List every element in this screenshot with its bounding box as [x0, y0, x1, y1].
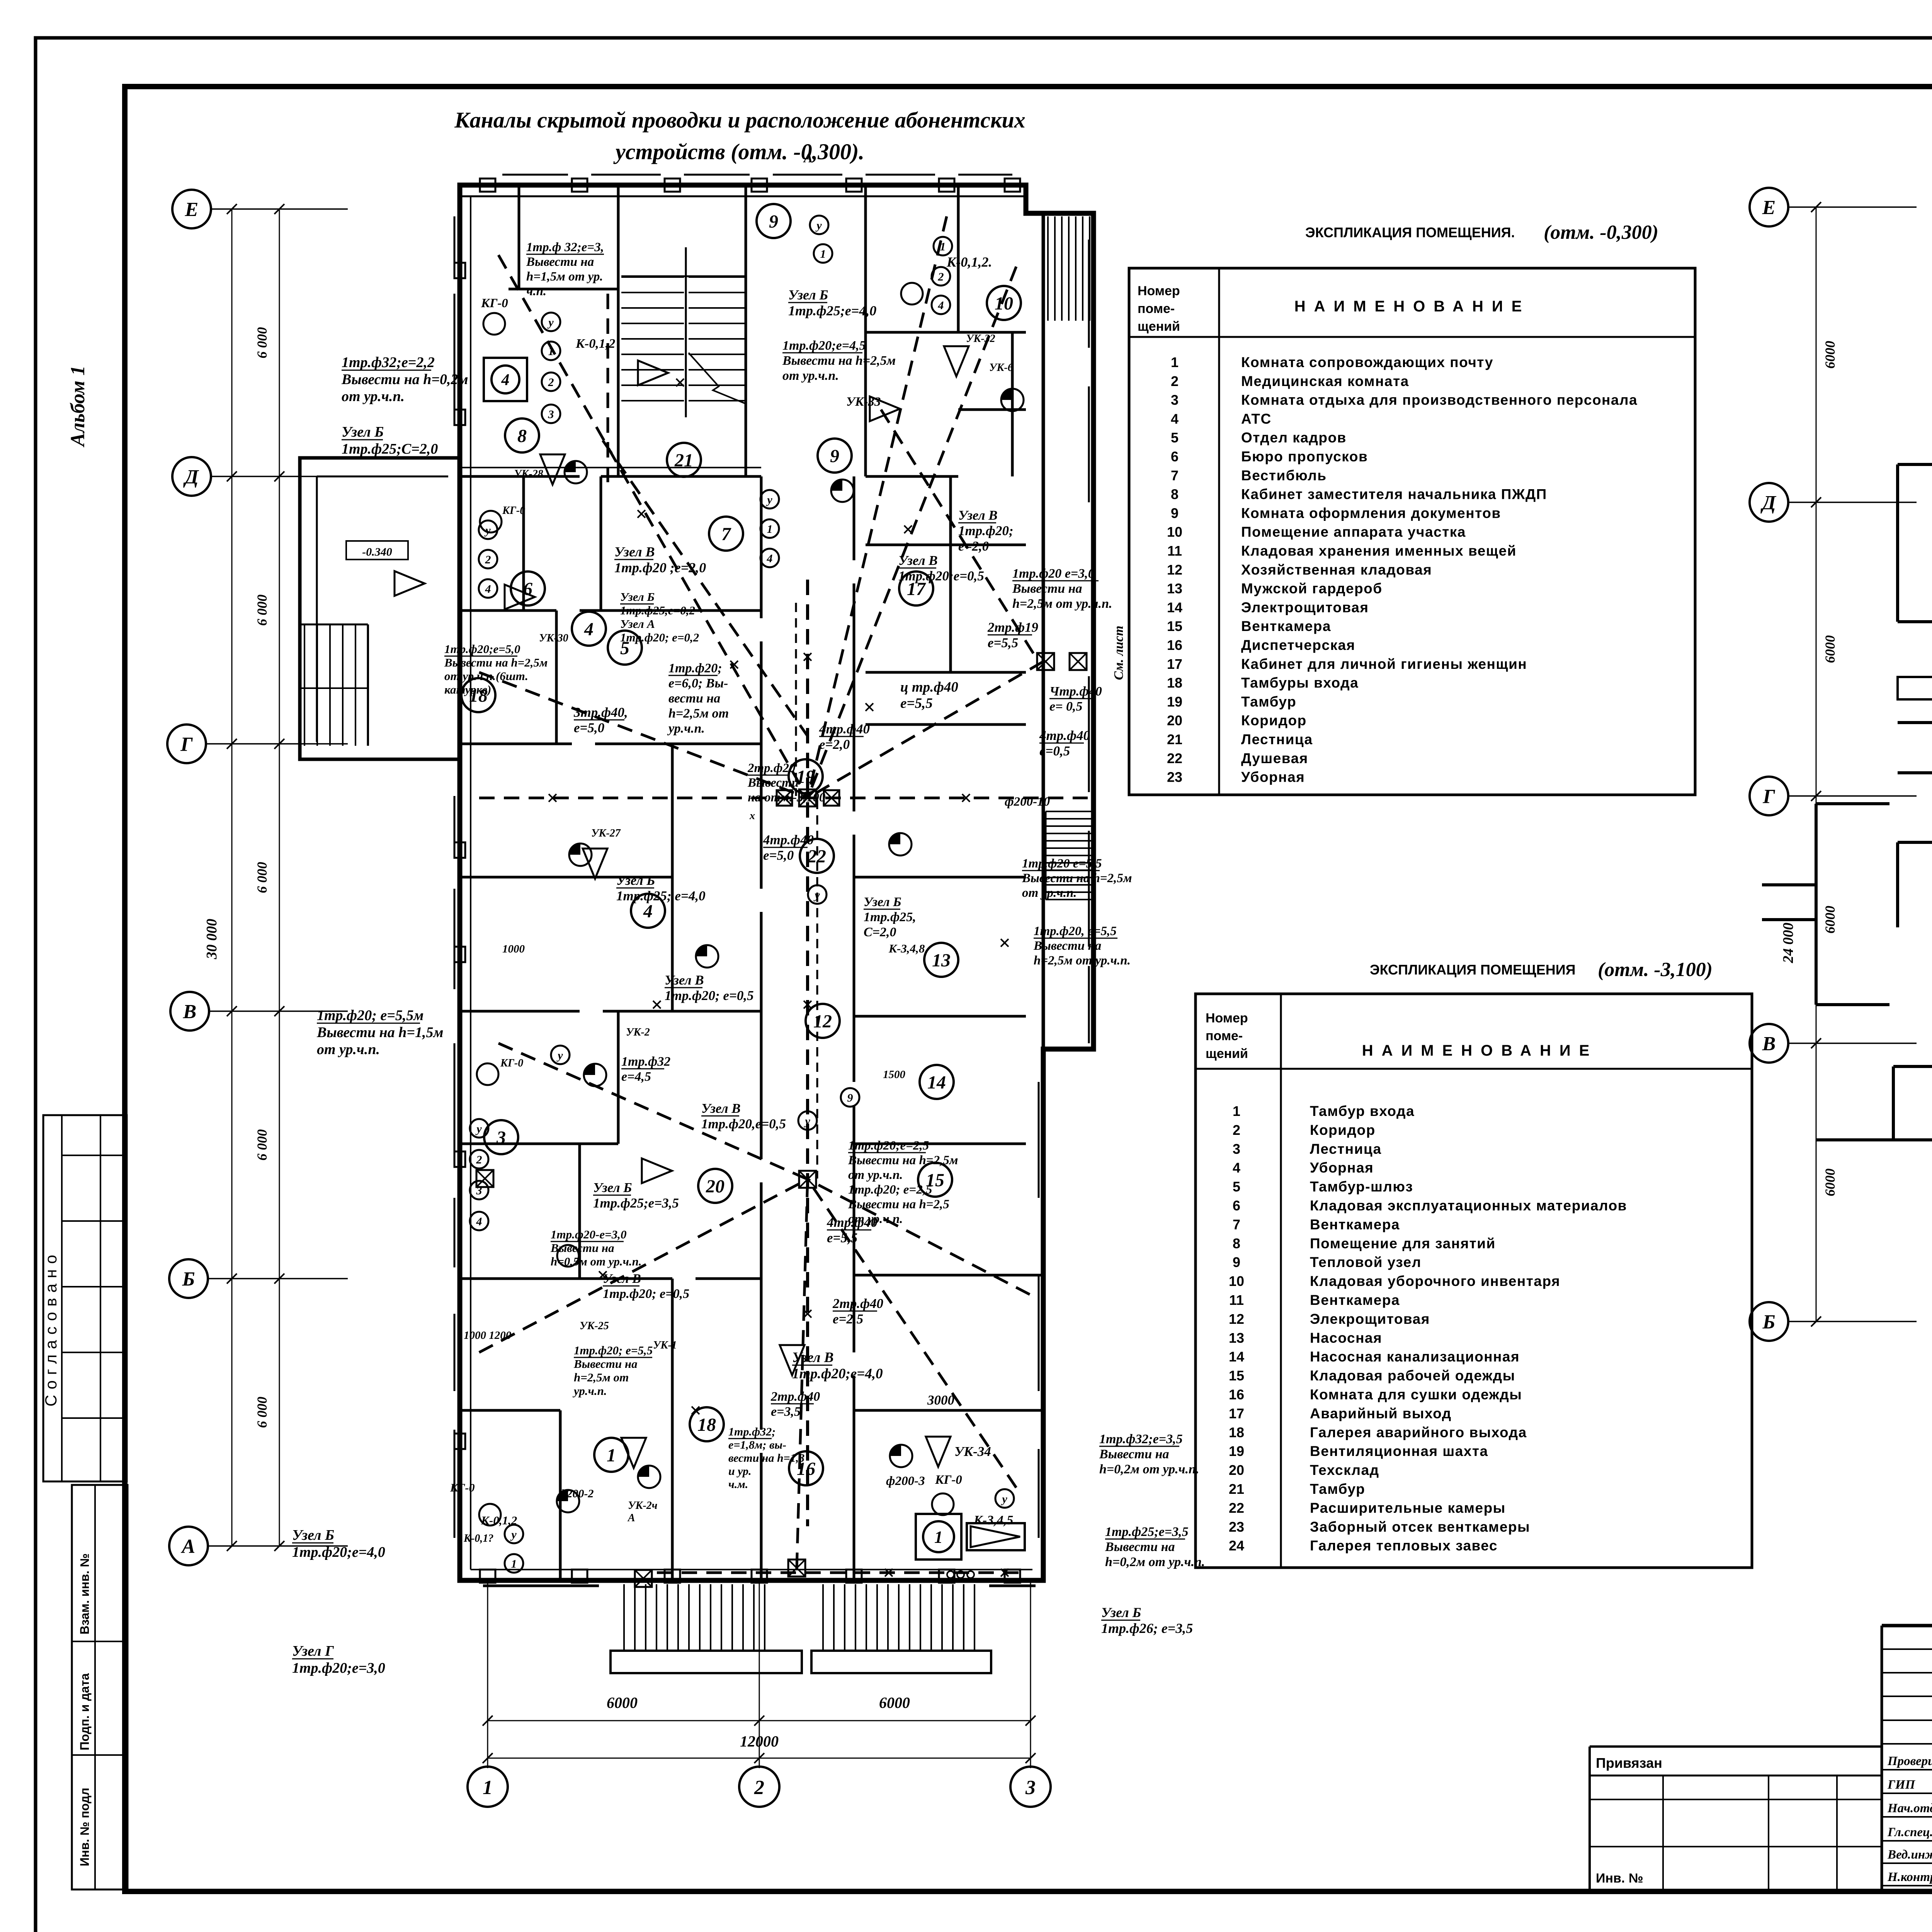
svg-text:К-0,1,2: К-0,1,2 — [575, 337, 615, 351]
svg-text:УК-6: УК-6 — [989, 362, 1013, 374]
svg-text:1тр.ф 32;e=3,: 1тр.ф 32;e=3, — [526, 240, 604, 254]
svg-text:Узел В: Узел В — [898, 553, 938, 568]
svg-text:К-3,4,8: К-3,4,8 — [888, 942, 925, 955]
svg-text:24 000: 24 000 — [1780, 923, 1796, 964]
svg-text:e=5,0: e=5,0 — [763, 848, 794, 863]
svg-text:Тамбур: Тамбур — [1241, 694, 1296, 709]
svg-text:Альбом 1: Альбом 1 — [67, 366, 89, 447]
svg-text:Расширительные камеры: Расширительные камеры — [1310, 1500, 1506, 1516]
svg-text:УК-27: УК-27 — [591, 827, 621, 839]
svg-text:9: 9 — [830, 446, 839, 466]
svg-text:Узел А: Узел А — [620, 617, 655, 631]
svg-text:14: 14 — [1167, 599, 1182, 615]
svg-text:9: 9 — [769, 211, 778, 232]
svg-text:Вывести на: Вывести на — [573, 1357, 638, 1371]
svg-text:Е: Е — [1762, 197, 1776, 219]
svg-text:Г: Г — [180, 733, 193, 755]
svg-text:C=2,0: C=2,0 — [864, 925, 896, 939]
svg-text:Б: Б — [182, 1268, 195, 1290]
svg-text:e=6,0; Вы-: e=6,0; Вы- — [668, 676, 728, 690]
svg-text:ф200-3: ф200-3 — [886, 1474, 925, 1488]
svg-text:1тр.ф20-e=3,0: 1тр.ф20-e=3,0 — [551, 1228, 627, 1241]
svg-text:Узел Б: Узел Б — [593, 1180, 632, 1195]
svg-text:Узел В: Узел В — [614, 544, 655, 560]
svg-text:23: 23 — [1167, 769, 1182, 785]
svg-text:1тр.ф20; e=5,5: 1тр.ф20; e=5,5 — [574, 1344, 653, 1357]
svg-text:от ур.ч.п.: от ур.ч.п. — [848, 1168, 903, 1182]
svg-text:1: 1 — [607, 1445, 616, 1466]
svg-text:h=2,5м от ур.ч.п.: h=2,5м от ур.ч.п. — [1012, 597, 1112, 611]
svg-text:6000: 6000 — [1822, 906, 1838, 934]
svg-text:22: 22 — [807, 846, 826, 867]
svg-text:вести на h=1,3: вести на h=1,3 — [728, 1452, 804, 1464]
svg-text:6 000: 6 000 — [254, 1129, 270, 1161]
svg-text:от ур.ч.п.: от ур.ч.п. — [342, 388, 405, 405]
svg-text:ЭКСПЛИКАЦИЯ ПОМЕЩЕНИЯ.: ЭКСПЛИКАЦИЯ ПОМЕЩЕНИЯ. — [1305, 224, 1515, 240]
svg-text:Взам. инв. №: Взам. инв. № — [78, 1553, 92, 1634]
svg-text:16: 16 — [1229, 1387, 1244, 1403]
svg-text:4: 4 — [1171, 411, 1179, 427]
svg-text:4тр.ф40: 4тр.ф40 — [763, 832, 814, 847]
svg-text:у: у — [475, 1122, 482, 1135]
svg-text:20: 20 — [1167, 713, 1182, 728]
svg-text:Узел В: Узел В — [958, 508, 998, 523]
svg-text:h=0,5м от ур.ч.п.: h=0,5м от ур.ч.п. — [551, 1255, 642, 1268]
svg-text:Г: Г — [1762, 786, 1775, 808]
svg-text:от ур.ч.п.: от ур.ч.п. — [782, 369, 839, 383]
svg-text:2: 2 — [754, 1777, 764, 1799]
svg-text:Проверил: Проверил — [1887, 1754, 1932, 1768]
svg-text:e=0,5: e=0,5 — [1039, 743, 1070, 759]
svg-text:ф200-10: ф200-10 — [1005, 795, 1050, 809]
svg-text:1тр.ф25;e=3,5: 1тр.ф25;e=3,5 — [1105, 1525, 1189, 1539]
svg-text:4тр.ф40: 4тр.ф40 — [1039, 728, 1090, 743]
svg-text:вести на: вести на — [668, 691, 720, 706]
svg-text:Тамбур: Тамбур — [1310, 1481, 1365, 1497]
svg-text:Уборная: Уборная — [1241, 769, 1305, 785]
svg-text:Кладовая хранения именных веще: Кладовая хранения именных вещей — [1241, 543, 1517, 559]
svg-text:20: 20 — [1229, 1462, 1244, 1478]
svg-text:Комната сопровождающих почту: Комната сопровождающих почту — [1241, 354, 1493, 370]
svg-text:15: 15 — [1229, 1368, 1244, 1384]
svg-text:К-3,4,5: К-3,4,5 — [973, 1513, 1013, 1527]
svg-text:7: 7 — [1233, 1216, 1240, 1232]
svg-text:Вывести на h=2,5м: Вывести на h=2,5м — [444, 656, 548, 669]
svg-text:УК-2ч: УК-2ч — [628, 1500, 658, 1512]
svg-text:Вывести на: Вывести на — [550, 1241, 614, 1255]
svg-text:8: 8 — [517, 426, 527, 446]
svg-text:1: 1 — [511, 1558, 517, 1570]
svg-text:17: 17 — [1229, 1405, 1244, 1421]
svg-text:5: 5 — [1171, 430, 1179, 446]
svg-text:3: 3 — [1233, 1141, 1240, 1157]
svg-text:Заборный отсек венткамеры: Заборный отсек венткамеры — [1310, 1519, 1530, 1535]
svg-text:19: 19 — [796, 767, 815, 787]
svg-text:ц тр.ф40: ц тр.ф40 — [900, 679, 958, 695]
svg-text:КГ-0: КГ-0 — [502, 505, 525, 517]
svg-text:Инв. №: Инв. № — [1596, 1871, 1643, 1886]
svg-text:e=5,5: e=5,5 — [988, 635, 1018, 650]
svg-text:1тр.ф20,e=0,5: 1тр.ф20,e=0,5 — [701, 1116, 786, 1131]
svg-text:1тр.ф20 e=3,0: 1тр.ф20 e=3,0 — [1012, 566, 1095, 581]
svg-text:от ур.ч.п.(6шт.: от ур.ч.п.(6шт. — [444, 669, 528, 683]
svg-text:9: 9 — [1233, 1254, 1240, 1270]
svg-text:(отм. -0,300): (отм. -0,300) — [1544, 221, 1658, 243]
svg-text:14: 14 — [1229, 1349, 1244, 1365]
svg-text:См. лист: См. лист — [1112, 626, 1126, 680]
svg-text:Вывести на h=2,5м: Вывести на h=2,5м — [1022, 871, 1132, 885]
svg-text:1тр.ф25;e=4,0: 1тр.ф25;e=4,0 — [788, 303, 876, 318]
svg-text:1тр.ф25,: 1тр.ф25, — [864, 910, 916, 924]
svg-text:13: 13 — [1167, 581, 1182, 597]
svg-text:К-0,1?: К-0,1? — [463, 1532, 493, 1544]
svg-text:Узел Б: Узел Б — [342, 424, 384, 440]
svg-text:катурке): катурке) — [444, 683, 492, 696]
svg-text:Венткамера: Венткамера — [1241, 618, 1331, 634]
svg-text:К-0,1,2.: К-0,1,2. — [946, 254, 992, 270]
svg-text:Вывести: Вывести — [747, 776, 799, 790]
svg-text:Насосная: Насосная — [1310, 1330, 1382, 1346]
svg-text:Б: Б — [1762, 1311, 1775, 1333]
svg-text:у: у — [766, 493, 772, 506]
svg-text:Узел Б: Узел Б — [620, 590, 655, 604]
svg-text:1тр.ф20; e=0,5: 1тр.ф20; e=0,5 — [665, 988, 754, 1003]
svg-text:Вывести на h=2,5м: Вывести на h=2,5м — [848, 1153, 958, 1167]
svg-text:поме-: поме- — [1206, 1029, 1243, 1043]
svg-text:1тр.ф20;e=4,5: 1тр.ф20;e=4,5 — [782, 338, 866, 353]
svg-text:6: 6 — [1233, 1198, 1240, 1214]
svg-text:1тр.ф20;e=4,0: 1тр.ф20;e=4,0 — [792, 1366, 883, 1382]
svg-text:Вывести на h=0,2м: Вывести на h=0,2м — [341, 371, 468, 388]
svg-text:Номер: Номер — [1138, 284, 1180, 298]
svg-text:Вывести на: Вывести на — [1105, 1540, 1175, 1554]
svg-text:2тр.ф19: 2тр.ф19 — [987, 620, 1038, 635]
svg-text:e=2,5: e=2,5 — [833, 1311, 863, 1327]
svg-text:2: 2 — [548, 376, 554, 389]
svg-text:на отм.-3,100: на отм.-3,100 — [748, 791, 825, 804]
svg-text:Коридор: Коридор — [1310, 1122, 1376, 1138]
svg-text:Узел Б: Узел Б — [1101, 1605, 1141, 1620]
svg-text:Вед.инжен: Вед.инжен — [1887, 1848, 1932, 1862]
svg-text:1тр.ф20;e=5,0: 1тр.ф20;e=5,0 — [444, 642, 520, 656]
svg-text:e=4,5: e=4,5 — [621, 1070, 651, 1084]
svg-text:Нач.отд.: Нач.отд. — [1887, 1801, 1932, 1815]
svg-text:e=2,0: e=2,0 — [819, 737, 850, 752]
svg-text:1тр.ф20;e=4,0: 1тр.ф20;e=4,0 — [292, 1544, 385, 1560]
svg-text:e= 0,5: e= 0,5 — [1049, 699, 1082, 714]
svg-text:h=0,2м от ур.ч.п.: h=0,2м от ур.ч.п. — [1099, 1462, 1199, 1476]
svg-text:Хозяйственная кладовая: Хозяйственная кладовая — [1241, 562, 1432, 578]
svg-text:6000: 6000 — [879, 1694, 910, 1711]
svg-text:2: 2 — [1233, 1122, 1240, 1138]
svg-text:Тепловой узел: Тепловой узел — [1310, 1254, 1422, 1270]
svg-text:9: 9 — [847, 1092, 853, 1104]
svg-text:Венткамера: Венткамера — [1310, 1292, 1400, 1308]
svg-text:КГ-0: КГ-0 — [935, 1473, 962, 1487]
svg-text:21: 21 — [674, 450, 693, 471]
svg-text:18: 18 — [1229, 1424, 1244, 1440]
svg-text:6 000: 6 000 — [254, 595, 270, 626]
svg-text:1тр.ф25;C=2,0: 1тр.ф25;C=2,0 — [342, 441, 438, 457]
svg-text:4: 4 — [1233, 1160, 1240, 1176]
svg-text:3тр.ф40,: 3тр.ф40, — [573, 705, 628, 720]
svg-text:Галерея аварийного выхода: Галерея аварийного выхода — [1310, 1424, 1527, 1440]
svg-text:НАИМЕНОВАНИЕ: НАИМЕНОВАНИЕ — [1362, 1042, 1598, 1059]
svg-text:17: 17 — [1167, 656, 1182, 672]
svg-text:6 000: 6 000 — [254, 327, 270, 359]
svg-text:4тр.ф40: 4тр.ф40 — [819, 721, 870, 736]
svg-text:и ур.: и ур. — [728, 1465, 752, 1478]
svg-text:Вентиляционная шахта: Вентиляционная шахта — [1310, 1443, 1488, 1459]
svg-text:22: 22 — [1167, 750, 1182, 766]
svg-text:7: 7 — [1171, 468, 1179, 483]
svg-text:у: у — [815, 219, 822, 232]
svg-text:4: 4 — [584, 619, 594, 639]
svg-text:h=2,5м от ур.ч.п.: h=2,5м от ур.ч.п. — [1034, 954, 1131, 968]
svg-text:Помещение аппарата участка: Помещение аппарата участка — [1241, 524, 1466, 540]
svg-text:1тр.ф20 ;e=2,0: 1тр.ф20 ;e=2,0 — [614, 560, 706, 575]
svg-text:КГ-0: КГ-0 — [481, 296, 508, 310]
svg-text:А: А — [803, 150, 813, 165]
svg-text:Узел В: Узел В — [701, 1101, 741, 1116]
svg-text:ф200-2: ф200-2 — [558, 1487, 594, 1500]
svg-text:К-0,1,2: К-0,1,2 — [481, 1514, 517, 1527]
svg-text:12: 12 — [1229, 1311, 1244, 1327]
svg-text:1500: 1500 — [883, 1068, 905, 1081]
svg-text:Галерея тепловых завес: Галерея тепловых завес — [1310, 1538, 1498, 1554]
svg-text:12: 12 — [1167, 562, 1182, 578]
svg-text:УК-33: УК-33 — [846, 395, 881, 409]
svg-text:11: 11 — [1167, 543, 1182, 559]
svg-text:Вестибюль: Вестибюль — [1241, 468, 1327, 483]
svg-text:1тр.ф32;e=2,2: 1тр.ф32;e=2,2 — [342, 354, 435, 371]
svg-text:устройств (отм. -0,300).: устройств (отм. -0,300). — [613, 139, 864, 164]
svg-text:2: 2 — [485, 553, 491, 566]
svg-text:1тр.ф20;e=0,5: 1тр.ф20;e=0,5 — [898, 568, 984, 583]
svg-text:6000: 6000 — [1822, 635, 1838, 663]
svg-text:НАИМЕНОВАНИЕ: НАИМЕНОВАНИЕ — [1294, 298, 1531, 315]
svg-text:18: 18 — [1167, 675, 1182, 691]
svg-text:4тр.ф40: 4тр.ф40 — [827, 1215, 878, 1230]
svg-text:4: 4 — [501, 371, 510, 389]
svg-text:Узел Б: Узел Б — [292, 1527, 334, 1543]
svg-text:1тр.ф20;e=2,5: 1тр.ф20;e=2,5 — [848, 1139, 929, 1153]
svg-text:10: 10 — [1167, 524, 1182, 540]
svg-text:Венткамера: Венткамера — [1310, 1216, 1400, 1232]
svg-text:3: 3 — [1171, 392, 1179, 408]
svg-text:Инв. № подл: Инв. № подл — [78, 1788, 92, 1866]
svg-text:3: 3 — [476, 1184, 482, 1197]
svg-text:Каналы скрытой проводки и расп: Каналы скрытой проводки и расположение а… — [454, 107, 1025, 133]
svg-text:1тр.ф25; e=4,0: 1тр.ф25; e=4,0 — [616, 888, 706, 903]
svg-text:6000: 6000 — [1822, 1168, 1838, 1196]
svg-text:Комната для сушки одежды: Комната для сушки одежды — [1310, 1387, 1522, 1403]
svg-text:24: 24 — [1229, 1538, 1244, 1554]
svg-text:от ур.ч.п.: от ур.ч.п. — [317, 1041, 380, 1058]
svg-text:Уборная: Уборная — [1310, 1160, 1374, 1176]
svg-text:Узел В: Узел В — [603, 1272, 641, 1286]
svg-text:Мужской гардероб: Мужской гардероб — [1241, 581, 1383, 597]
svg-text:поме-: поме- — [1138, 301, 1175, 316]
svg-text:Н.контр.: Н.контр. — [1887, 1870, 1932, 1884]
svg-text:Кладовая рабочей одежды: Кладовая рабочей одежды — [1310, 1368, 1515, 1384]
svg-text:УК-1: УК-1 — [653, 1339, 677, 1351]
svg-text:1: 1 — [1171, 354, 1179, 370]
svg-text:6: 6 — [1171, 449, 1179, 464]
svg-text:В: В — [1762, 1033, 1776, 1055]
svg-text:1тр.ф25,e=0,2: 1тр.ф25,e=0,2 — [620, 604, 695, 617]
svg-text:4: 4 — [643, 901, 653, 922]
svg-text:ЭКСПЛИКАЦИЯ ПОМЕЩЕНИЯ: ЭКСПЛИКАЦИЯ ПОМЕЩЕНИЯ — [1370, 962, 1575, 978]
svg-text:Душевая: Душевая — [1241, 750, 1308, 766]
svg-text:1тр.ф20, e=5,5: 1тр.ф20, e=5,5 — [1034, 924, 1117, 938]
svg-text:8: 8 — [1233, 1235, 1240, 1251]
svg-text:13: 13 — [1229, 1330, 1244, 1346]
svg-text:КГ-0: КГ-0 — [450, 1481, 474, 1494]
svg-text:Диспетчерская: Диспетчерская — [1241, 637, 1355, 653]
svg-text:2тр.ф20: 2тр.ф20 — [747, 761, 796, 775]
svg-text:12: 12 — [813, 1011, 832, 1032]
svg-text:КГ-0: КГ-0 — [500, 1057, 523, 1069]
svg-text:А: А — [627, 1512, 635, 1524]
svg-text:15: 15 — [1167, 618, 1182, 634]
svg-text:Вывести на: Вывести на — [526, 255, 594, 269]
svg-text:Вывести на h=2,5м: Вывести на h=2,5м — [782, 354, 896, 368]
svg-text:Медицинская комната: Медицинская комната — [1241, 373, 1409, 389]
svg-text:Д: Д — [1760, 492, 1776, 514]
svg-text:Вывести на h=2,5: Вывести на h=2,5 — [848, 1197, 949, 1211]
svg-text:9: 9 — [1171, 505, 1179, 521]
svg-text:6 000: 6 000 — [254, 862, 270, 893]
svg-text:Отдел кадров: Отдел кадров — [1241, 430, 1347, 446]
svg-text:6 000: 6 000 — [254, 1397, 270, 1428]
svg-text:Гл.спец.: Гл.спец. — [1887, 1825, 1932, 1839]
svg-text:у: у — [556, 1049, 563, 1062]
svg-text:1000: 1000 — [502, 943, 525, 955]
svg-text:2: 2 — [938, 270, 944, 283]
svg-text:1: 1 — [940, 240, 946, 253]
svg-text:3: 3 — [496, 1128, 506, 1148]
svg-text:23: 23 — [1229, 1519, 1244, 1535]
svg-text:1тр.ф20;: 1тр.ф20; — [668, 661, 722, 675]
svg-text:1тр.ф20; e=0,5: 1тр.ф20; e=0,5 — [603, 1287, 689, 1301]
svg-text:e=2,0: e=2,0 — [958, 539, 989, 554]
svg-text:Номер: Номер — [1206, 1011, 1248, 1026]
svg-text:Вывести на: Вывести на — [1033, 939, 1101, 953]
svg-text:16: 16 — [1167, 637, 1182, 653]
svg-text:e=3,5: e=3,5 — [771, 1405, 801, 1419]
svg-text:2тр.ф40: 2тр.ф40 — [770, 1389, 820, 1404]
svg-text:Д: Д — [183, 466, 199, 488]
svg-text:Бюро пропусков: Бюро пропусков — [1241, 449, 1368, 464]
svg-text:10: 10 — [1229, 1273, 1244, 1289]
svg-text:Вывести на: Вывести на — [1012, 582, 1082, 596]
svg-text:у: у — [484, 524, 491, 537]
svg-text:6: 6 — [523, 579, 532, 599]
svg-text:h=1,5м от ур.: h=1,5м от ур. — [526, 270, 603, 284]
svg-text:Вывести на h=1,5м: Вывести на h=1,5м — [316, 1024, 444, 1041]
svg-text:Узел Б: Узел Б — [616, 873, 655, 888]
svg-text:ч.п.: ч.п. — [526, 284, 546, 298]
svg-text:1тр.ф25;e=3,5: 1тр.ф25;e=3,5 — [593, 1196, 679, 1211]
svg-text:18: 18 — [697, 1415, 716, 1435]
svg-text:Комната отдыха для производств: Комната отдыха для производственного пер… — [1241, 392, 1638, 408]
svg-text:h=2,5м от: h=2,5м от — [668, 706, 729, 721]
svg-text:19: 19 — [1229, 1443, 1244, 1459]
svg-text:1: 1 — [767, 523, 773, 536]
svg-text:УК-28: УК-28 — [514, 468, 543, 480]
svg-text:22: 22 — [1229, 1500, 1244, 1516]
svg-text:20: 20 — [706, 1176, 724, 1197]
svg-text:(отм. -3,100): (отм. -3,100) — [1598, 959, 1713, 981]
svg-text:Е: Е — [185, 199, 199, 221]
svg-text:1тр.ф20;: 1тр.ф20; — [958, 523, 1014, 538]
svg-text:2тр.ф40: 2тр.ф40 — [832, 1296, 883, 1311]
svg-text:2: 2 — [1171, 373, 1179, 389]
svg-text:4: 4 — [938, 299, 944, 312]
svg-text:11: 11 — [1229, 1292, 1244, 1308]
svg-text:Согласовано: Согласовано — [42, 1249, 60, 1406]
svg-text:1тр.ф26; e=3,5: 1тр.ф26; e=3,5 — [1101, 1621, 1193, 1636]
svg-text:у: у — [804, 1115, 810, 1128]
svg-text:3000: 3000 — [927, 1393, 954, 1408]
svg-text:1тр.ф20;e=3,0: 1тр.ф20;e=3,0 — [292, 1660, 385, 1676]
svg-text:у: у — [547, 316, 554, 329]
svg-text:Узел Б: Узел Б — [788, 287, 828, 303]
svg-text:Подп. и дата: Подп. и дата — [78, 1673, 92, 1750]
svg-text:Лестница: Лестница — [1310, 1141, 1382, 1157]
svg-text:1: 1 — [483, 1777, 493, 1799]
svg-text:ч.м.: ч.м. — [728, 1478, 748, 1491]
svg-text:В: В — [183, 1001, 197, 1023]
svg-text:А: А — [181, 1536, 196, 1558]
svg-text:12000: 12000 — [740, 1733, 779, 1750]
svg-text:УК-25: УК-25 — [580, 1320, 609, 1332]
svg-text:Чтр.ф40: Чтр.ф40 — [1049, 684, 1102, 699]
svg-text:1: 1 — [934, 1527, 943, 1546]
svg-text:7: 7 — [721, 524, 731, 544]
svg-text:Комната оформления документов: Комната оформления документов — [1241, 505, 1501, 521]
svg-text:1тр.ф20; e=5,5м: 1тр.ф20; e=5,5м — [317, 1007, 423, 1024]
svg-text:Тамбур-шлюз: Тамбур-шлюз — [1310, 1179, 1413, 1195]
svg-text:e=1,8м; вы-: e=1,8м; вы- — [728, 1439, 786, 1451]
svg-text:у: у — [1001, 1493, 1007, 1505]
svg-text:от ур.ч.п.: от ур.ч.п. — [1022, 886, 1077, 900]
svg-text:Тамбуры входа: Тамбуры входа — [1241, 675, 1359, 691]
svg-text:Узел В: Узел В — [665, 973, 704, 988]
svg-text:3: 3 — [1025, 1777, 1036, 1799]
svg-text:1тр.ф32;: 1тр.ф32; — [728, 1425, 776, 1438]
svg-text:4: 4 — [476, 1215, 482, 1228]
svg-text:2: 2 — [476, 1153, 482, 1166]
svg-text:e=5,5: e=5,5 — [900, 696, 933, 711]
svg-text:6000: 6000 — [1822, 341, 1838, 369]
svg-text:5: 5 — [1233, 1179, 1240, 1195]
svg-text:Тамбур входа: Тамбур входа — [1310, 1103, 1415, 1119]
svg-text:Коридор: Коридор — [1241, 713, 1307, 728]
svg-text:19: 19 — [1167, 694, 1182, 709]
svg-text:Узел Б: Узел Б — [864, 895, 901, 909]
svg-text:Вывести на: Вывести на — [1099, 1447, 1169, 1461]
svg-text:ур.ч.п.: ур.ч.п. — [572, 1384, 607, 1398]
svg-text:УК-2: УК-2 — [626, 1026, 650, 1038]
svg-text:Электрощитовая: Электрощитовая — [1241, 599, 1369, 615]
svg-text:e=5,5: e=5,5 — [827, 1230, 857, 1245]
svg-text:10: 10 — [995, 293, 1013, 314]
svg-text:ур.ч.п.: ур.ч.п. — [667, 721, 705, 736]
svg-text:Кабинет заместителя начальника: Кабинет заместителя начальника ПЖДП — [1241, 486, 1547, 502]
svg-text:щений: щений — [1138, 319, 1180, 334]
